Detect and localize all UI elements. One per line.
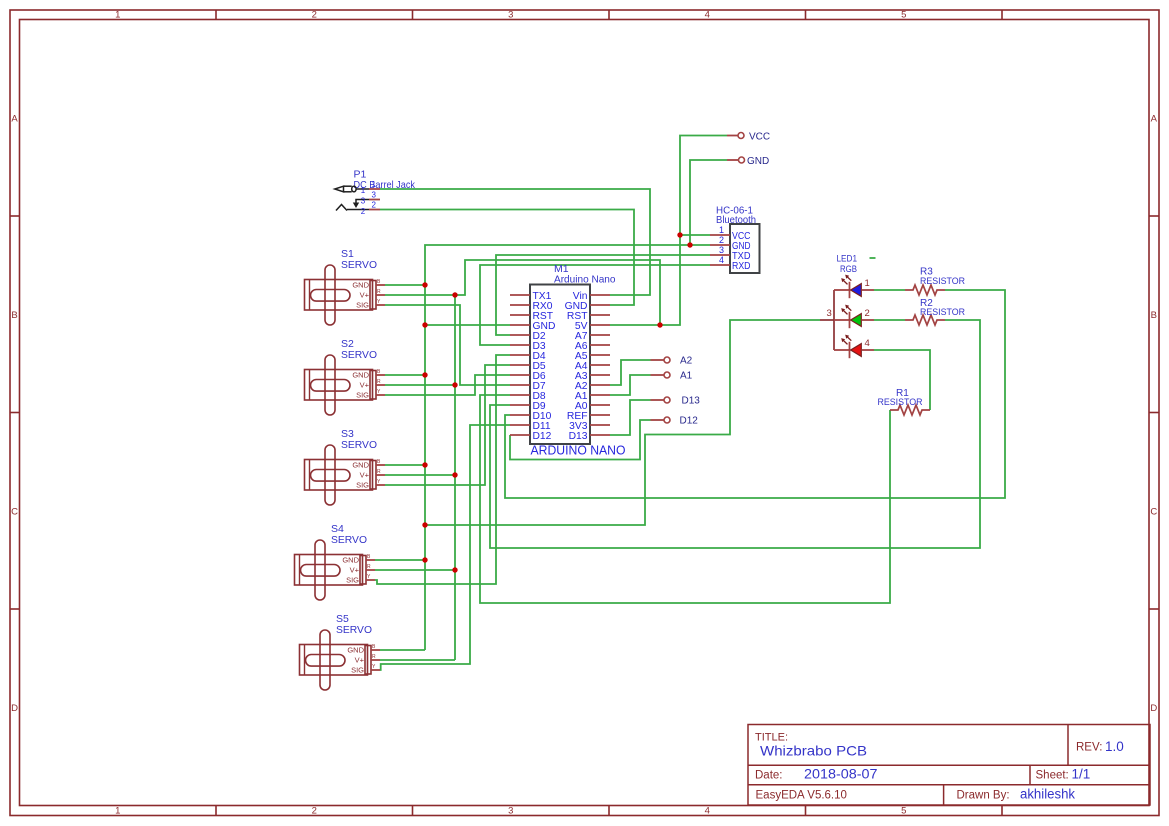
wire stub near LED1 label	[870, 257, 876, 259]
svg-text:SERVO: SERVO	[341, 349, 377, 361]
svg-text:SERVO: SERVO	[331, 534, 367, 546]
svg-text:RESISTOR: RESISTOR	[920, 307, 965, 318]
resistor R2	[905, 298, 965, 325]
P1 pin 2	[361, 201, 380, 217]
P1 pin 1	[361, 180, 380, 195]
wire S5 GND	[380, 649, 425, 651]
svg-text:1/1: 1/1	[1072, 767, 1091, 782]
svg-text:D12: D12	[680, 416, 699, 427]
svg-text:GND: GND	[347, 646, 364, 655]
wire S3 GND	[385, 464, 425, 466]
wire LED blue anode to R3	[874, 289, 905, 291]
wire HC-06 TXD to D2	[496, 255, 710, 335]
svg-text:B: B	[11, 310, 17, 321]
svg-text:GND: GND	[342, 556, 359, 565]
svg-text:1: 1	[372, 180, 377, 189]
wire R1 to LED red anode	[874, 350, 930, 410]
wire P1 pin2 to GND pin	[380, 210, 634, 306]
svg-text:SIG: SIG	[356, 301, 369, 310]
net flag A1	[651, 371, 693, 382]
svg-text:R: R	[372, 654, 376, 660]
svg-text:V+: V+	[360, 471, 370, 480]
svg-text:D: D	[1150, 703, 1157, 714]
svg-text:SIG: SIG	[356, 481, 369, 490]
svg-text:4: 4	[705, 10, 710, 21]
wire Arduino GND left to bus	[425, 324, 510, 326]
servo S5	[300, 613, 381, 690]
svg-text:3: 3	[827, 308, 832, 319]
svg-text:3: 3	[508, 806, 513, 817]
svg-text:V+: V+	[355, 656, 365, 665]
svg-text:GND: GND	[747, 156, 769, 167]
svg-text:A2: A2	[680, 356, 693, 367]
M1 left pins	[510, 295, 530, 435]
svg-text:RGB: RGB	[840, 264, 857, 274]
svg-text:2: 2	[312, 806, 317, 817]
svg-text:SIG: SIG	[351, 666, 364, 675]
wire LED common cathode to GND bus	[425, 320, 820, 525]
servo S3	[305, 428, 386, 505]
wire S1 GND	[385, 284, 425, 286]
svg-text:Whizbrabo PCB: Whizbrabo PCB	[760, 743, 867, 759]
svg-text:V+: V+	[360, 291, 370, 300]
wire LED green anode to R2	[874, 319, 905, 321]
P1 spring contact graphic	[336, 205, 369, 211]
wire S1 SIG to D7	[385, 305, 510, 385]
svg-text:V+: V+	[360, 381, 370, 390]
net flag A2	[651, 356, 693, 367]
LED1 pin numbers	[827, 278, 870, 349]
wire A2 pin to flag	[610, 360, 651, 385]
M1 right pin names	[565, 291, 589, 442]
wire S3 V+	[385, 474, 455, 476]
net flag VCC	[727, 132, 770, 143]
svg-text:SERVO: SERVO	[336, 624, 372, 636]
svg-text:A: A	[1151, 113, 1158, 124]
LED1 red element pin 4	[834, 335, 874, 359]
svg-text:V+: V+	[350, 566, 360, 575]
resistor R1	[878, 388, 931, 415]
wire GND net (bus x=425, top run to HC-06 GND pin, GND flag riser)	[425, 160, 727, 650]
wire D9 to R2	[490, 320, 980, 548]
P1 switch contact graphic	[353, 200, 369, 209]
svg-text:2: 2	[372, 201, 377, 210]
wire P1 pin1 to Vin	[380, 189, 650, 295]
svg-text:R: R	[367, 564, 371, 570]
svg-text:2: 2	[312, 10, 317, 21]
svg-text:2: 2	[719, 235, 724, 245]
module HC-06-1 Bluetooth labels	[716, 205, 756, 227]
P1 center pin graphic	[335, 186, 369, 192]
svg-text:VCC: VCC	[749, 132, 770, 143]
svg-text:2: 2	[865, 308, 870, 319]
svg-text:4: 4	[865, 338, 870, 349]
svg-text:1.0: 1.0	[1105, 739, 1124, 754]
HC-06-1 pins	[710, 225, 751, 272]
svg-text:2018-08-07: 2018-08-07	[804, 767, 878, 782]
svg-text:3: 3	[719, 245, 724, 255]
svg-text:Sheet:: Sheet:	[1036, 770, 1069, 782]
svg-text:REV:: REV:	[1076, 742, 1102, 754]
svg-text:SERVO: SERVO	[341, 259, 377, 271]
svg-text:D: D	[11, 703, 18, 714]
svg-text:R: R	[377, 469, 381, 475]
svg-text:D13: D13	[569, 431, 588, 442]
connector P1 DC Barrel Jack	[354, 169, 416, 191]
svg-text:C: C	[11, 506, 18, 517]
svg-text:4: 4	[705, 806, 710, 817]
P1 pin 3	[361, 191, 380, 206]
wire S2 V+	[385, 384, 455, 386]
svg-text:LED1: LED1	[837, 254, 858, 264]
M1 body	[530, 285, 590, 445]
wire S4 SIG to D4	[375, 355, 510, 584]
svg-text:D12: D12	[533, 431, 552, 442]
svg-text:1: 1	[115, 806, 120, 817]
svg-text:Drawn By:: Drawn By:	[957, 790, 1010, 802]
svg-text:D13: D13	[682, 396, 701, 407]
svg-text:2: 2	[361, 207, 366, 216]
svg-text:1: 1	[115, 10, 120, 21]
wire S2 SIG to D6	[385, 375, 510, 395]
wire VCC net (bus x=455, link to 5V, VCC flag, HC-06 VCC)	[455, 136, 727, 661]
svg-text:EasyEDA V5.6.10: EasyEDA V5.6.10	[756, 790, 847, 802]
servo S4	[295, 523, 376, 600]
junction dots	[422, 232, 692, 572]
svg-text:GND: GND	[352, 281, 369, 290]
wire S1 V+	[385, 294, 455, 296]
svg-text:R: R	[377, 289, 381, 295]
servo S1	[305, 248, 386, 325]
servo S2	[305, 338, 386, 415]
net flag D12	[651, 416, 699, 427]
svg-text:RXD: RXD	[732, 261, 751, 272]
LED1 blue element pin 1	[834, 275, 874, 299]
svg-text:3: 3	[372, 191, 377, 200]
svg-text:1: 1	[719, 225, 724, 235]
svg-text:A: A	[11, 113, 18, 124]
svg-text:SIG: SIG	[356, 391, 369, 400]
svg-text:1: 1	[865, 278, 870, 289]
wire S4 GND	[375, 559, 425, 561]
svg-text:ARDUINO NANO: ARDUINO NANO	[531, 443, 626, 458]
svg-text:akhileshk: akhileshk	[1020, 787, 1075, 802]
svg-text:SERVO: SERVO	[341, 439, 377, 451]
svg-text:R: R	[377, 379, 381, 385]
svg-text:4: 4	[719, 255, 724, 265]
wire S2 GND	[385, 374, 425, 376]
net flag D13	[651, 396, 701, 407]
resistor R3	[905, 267, 965, 296]
M1 left pin names	[533, 291, 556, 442]
wire D8 to R1	[480, 395, 890, 603]
wire HC-06 RXD to D3	[480, 265, 710, 345]
HC-06-1 body	[730, 224, 760, 273]
wire D10 to R3	[505, 290, 1005, 498]
M1 right pins	[590, 295, 610, 435]
LED1 green element pin 2	[834, 305, 874, 329]
wire S5 V+	[380, 659, 455, 661]
svg-text:A1: A1	[680, 371, 693, 382]
wire A1 pin to flag	[610, 375, 651, 395]
svg-text:C: C	[1150, 506, 1157, 517]
wire S3 SIG to D5	[385, 365, 510, 485]
svg-text:RESISTOR: RESISTOR	[920, 276, 965, 287]
svg-text:5: 5	[901, 10, 906, 21]
svg-text:GND: GND	[352, 461, 369, 470]
net flag GND	[727, 156, 769, 167]
svg-text:1: 1	[361, 186, 366, 195]
wire D13 pin to flag	[610, 400, 651, 435]
wire S5 SIG to D11	[380, 425, 510, 670]
wire D12 pin to flag	[510, 420, 651, 460]
svg-text:3: 3	[361, 197, 366, 206]
svg-text:3: 3	[508, 10, 513, 21]
svg-text:GND: GND	[352, 371, 369, 380]
wire S4 V+	[375, 569, 455, 571]
IC M1 Arduino Nano labels	[554, 263, 616, 286]
LED1 common bus	[820, 290, 834, 350]
svg-text:SIG: SIG	[346, 576, 359, 585]
svg-text:RESISTOR: RESISTOR	[878, 397, 923, 408]
svg-text:B: B	[1151, 310, 1157, 321]
svg-text:Date:: Date:	[755, 770, 783, 782]
title block	[748, 725, 1150, 806]
LED LED1 RGB labels	[837, 254, 858, 275]
svg-text:5: 5	[901, 806, 906, 817]
